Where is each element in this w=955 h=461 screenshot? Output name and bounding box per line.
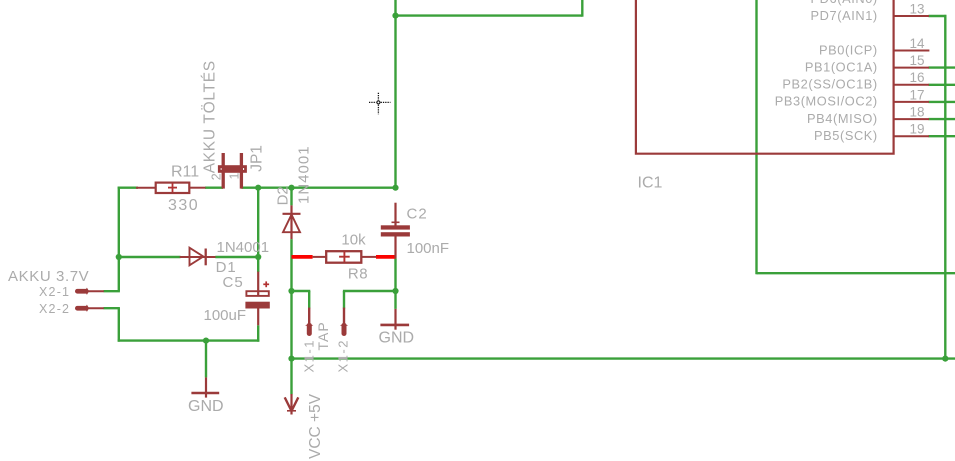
ground GND right (380, 309, 409, 330)
svg-text:GND: GND (188, 398, 224, 415)
junction bottom rail right (942, 356, 948, 362)
pin 16 stub (894, 84, 929, 86)
label C2 (407, 206, 428, 223)
svg-text:C5: C5 (223, 274, 244, 291)
label D2 (275, 186, 292, 205)
capacitor C2 (381, 203, 410, 259)
label JP1 pin 2 (209, 173, 223, 180)
pin number 17 (909, 87, 924, 102)
wire main horizontal left segment (118, 186, 138, 188)
wire JP1 pin 1 to C2 junction (241, 186, 395, 188)
label GND left (188, 398, 224, 415)
pin X1-1 pad (305, 308, 313, 336)
net highlight R8 left (bright red) (292, 255, 313, 259)
junction D1 right (255, 254, 261, 260)
wire X2-2 vertical down (118, 308, 120, 342)
wire X1-2 branch horizontal (343, 290, 396, 292)
capacitor C5 (245, 272, 269, 326)
svg-text:PD6(AIN0): PD6(AIN0) (811, 0, 878, 6)
label 1N4001 (D1) (217, 239, 270, 256)
pin label tick X1-2 (338, 357, 347, 359)
svg-text:1N4001: 1N4001 (296, 145, 313, 204)
wire X2-1 to left vertical (104, 290, 120, 292)
pin name PB1(OC1A) (805, 59, 878, 74)
label C5 (223, 274, 244, 291)
label 100nF (407, 240, 450, 257)
label AKKU TÖLTÉS (201, 60, 219, 173)
wire X2-2 horizontal (104, 307, 120, 309)
wire pin 17 net (929, 101, 955, 103)
svg-text:D2: D2 (275, 186, 292, 205)
svg-text:GND: GND (379, 330, 415, 347)
svg-text:PB2(SS/OC1B): PB2(SS/OC1B) (782, 77, 877, 92)
wire GND left green stub (205, 341, 207, 378)
label R11 (171, 164, 199, 181)
svg-text:16: 16 (909, 70, 924, 85)
svg-text:R11: R11 (171, 164, 199, 181)
svg-text:IC1: IC1 (638, 175, 663, 192)
label JP1 pin 1 (228, 173, 242, 180)
wire mid-right horizontal (757, 272, 955, 274)
pin name PB2(SS/OC1B) (782, 77, 877, 92)
wire C5 top net (257, 257, 259, 272)
svg-text:PB5(SCK): PB5(SCK) (814, 128, 878, 143)
wire mid-right vertical (755, 0, 757, 274)
junction C2 top (392, 185, 398, 191)
pin 17 stub (894, 101, 929, 103)
wire right vertical from pin 13 (944, 15, 946, 359)
label 10k (341, 231, 366, 248)
svg-text:17: 17 (909, 87, 924, 102)
junction top tee (392, 13, 398, 19)
pin name PB3(MOSI/OC2) (775, 94, 878, 109)
wire D2 top net (290, 188, 292, 206)
cursor crosshair (369, 93, 391, 115)
svg-text:R8: R8 (348, 265, 368, 282)
svg-text:JP1: JP1 (249, 145, 266, 172)
svg-text:PB1(OC1A): PB1(OC1A) (805, 59, 878, 74)
wire D1 left (119, 256, 181, 258)
wire X1-2 branch vertical (343, 291, 345, 309)
ic IC1 box (636, 0, 894, 154)
pin 19 stub (894, 135, 929, 137)
wire JP1 junction down to D1 junction (257, 188, 259, 257)
svg-text:PB0(ICP): PB0(ICP) (819, 42, 878, 57)
svg-text:1: 1 (228, 173, 242, 180)
supply symbol VCC +5V arrow (285, 394, 299, 415)
wire top right vertical (581, 0, 583, 17)
wire R11 to JP1 pin 2 (205, 186, 223, 188)
wire top horizontal (396, 14, 583, 16)
svg-text:18: 18 (909, 105, 924, 120)
svg-text:VCC +5V: VCC +5V (307, 393, 324, 459)
pin 18 stub (894, 118, 929, 120)
jumper JP1 (219, 153, 245, 189)
svg-text:330: 330 (168, 197, 199, 214)
wire pin 13 link (929, 15, 947, 17)
svg-text:PD7(AIN1): PD7(AIN1) (811, 8, 878, 23)
label 330 (168, 197, 199, 214)
net highlight R8 right (bright red) (376, 255, 396, 259)
label 1N4001 (D2) (296, 145, 313, 204)
svg-text:C2: C2 (407, 206, 428, 223)
pin name PD7(AIN1) (811, 8, 878, 23)
label TAP (315, 321, 331, 350)
pin name PB4(MISO) (807, 111, 878, 126)
label X1-1 (302, 339, 317, 372)
svg-text:15: 15 (909, 53, 924, 68)
pin name PB0(ICP) (819, 42, 878, 57)
pin number 16 (909, 70, 924, 85)
label IC1 (638, 175, 663, 192)
svg-text:PB4(MISO): PB4(MISO) (807, 111, 878, 126)
wire C2 bottom net (394, 258, 396, 292)
label GND right (379, 330, 415, 347)
junction D1 left (116, 254, 122, 260)
svg-text:10k: 10k (341, 231, 366, 248)
wire left vertical (118, 187, 120, 292)
svg-text:19: 19 (909, 122, 924, 137)
svg-text:X2-1: X2-1 (39, 285, 70, 299)
label AKKU 3.7V (8, 268, 89, 285)
pin 14 stub (894, 50, 930, 52)
label 100uF (204, 307, 247, 324)
diode D1 (180, 248, 216, 266)
svg-text:AKKU TÖLTÉS: AKKU TÖLTÉS (201, 60, 219, 173)
svg-text:100nF: 100nF (407, 240, 450, 257)
diode D2 (283, 205, 301, 239)
wire D1 right (215, 256, 258, 258)
wire pin 16 net (929, 84, 955, 86)
wire pin 15 net (929, 66, 955, 68)
svg-text:2: 2 (209, 173, 223, 180)
pin name PD6(AIN0) (811, 0, 878, 6)
wire GND right green stub (394, 291, 396, 309)
svg-text:14: 14 (909, 36, 925, 51)
svg-text:PB3(MOSI/OC2): PB3(MOSI/OC2) (775, 94, 878, 109)
svg-text:X1-2: X1-2 (335, 339, 350, 372)
resistor R11 (136, 183, 206, 193)
label R8 (348, 265, 368, 282)
svg-text:1N4001: 1N4001 (217, 239, 270, 256)
svg-text:TAP: TAP (315, 321, 331, 350)
wire X1-1 branch horizontal (292, 290, 311, 292)
pin label tick X1-1 (305, 357, 314, 359)
wire X1-1 branch vertical (308, 291, 310, 309)
wire bottom long rail (292, 357, 955, 359)
wire C5 bottom net (257, 325, 259, 341)
svg-text:13: 13 (909, 1, 924, 16)
label D1 (216, 259, 237, 276)
pin 15 stub (894, 67, 929, 69)
label VCC +5V (307, 393, 324, 459)
label X2-2 (39, 302, 70, 316)
pin number 13 (909, 1, 924, 16)
label X2-1 (39, 285, 70, 299)
wire D2 bottom to VCC arrow (290, 239, 292, 394)
junction X1 tap (288, 288, 294, 294)
wire pin 19 net (929, 135, 955, 137)
label JP1 (249, 145, 266, 172)
label X1-2 (335, 339, 350, 372)
pin number 18 (909, 105, 924, 120)
junction bottom rail left (288, 356, 294, 362)
junction JP1 output (255, 185, 261, 191)
pin number 15 (909, 53, 924, 68)
connector pad X2-1 (75, 288, 104, 295)
wire pin 18 net (929, 118, 955, 120)
junction D2 top (288, 185, 294, 191)
svg-text:100uF: 100uF (204, 307, 247, 324)
pin number 19 (909, 122, 924, 137)
pin 13 stub (894, 15, 929, 17)
connector pad X2-2 (75, 305, 104, 312)
wire bottom left horizontal (118, 339, 260, 341)
pin number 14 (909, 36, 925, 51)
ground GND left (191, 377, 219, 397)
junction GND tap left (203, 338, 209, 344)
junction C2 bottom GND (392, 288, 398, 294)
svg-text:X2-2: X2-2 (39, 302, 70, 316)
wire VCC net top vertical (394, 0, 396, 189)
pin X1-2 pad (340, 308, 348, 336)
svg-text:AKKU 3.7V: AKKU 3.7V (8, 268, 89, 285)
pin name PB5(SCK) (814, 128, 878, 143)
resistor R8 (313, 251, 377, 263)
